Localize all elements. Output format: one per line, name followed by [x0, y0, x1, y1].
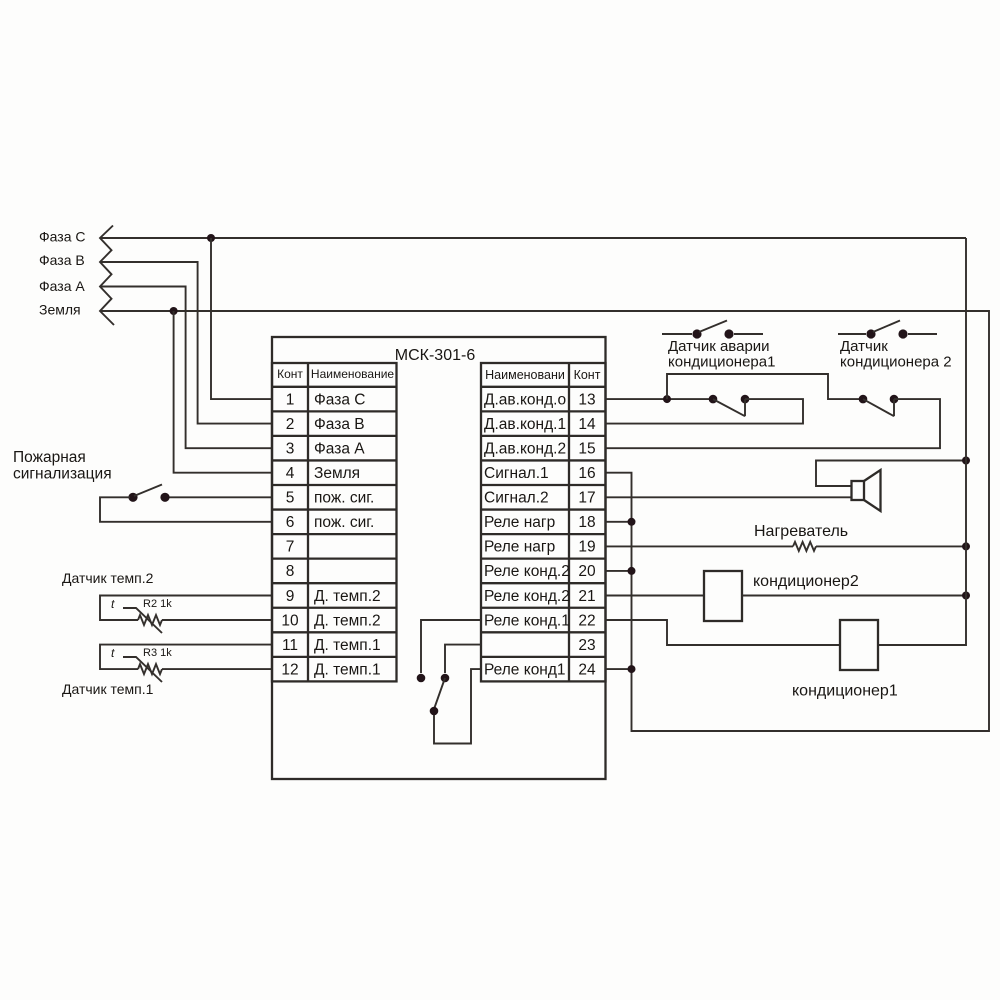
wire fire alarm loop to pin 6 — [100, 497, 272, 522]
wire pin 22 to кондиционер1 — [605, 620, 840, 645]
svg-text:3: 3 — [286, 441, 295, 458]
feeder cable-break zigzag — [100, 226, 114, 326]
heater resistor zigzag — [793, 542, 816, 551]
left terminal table row lines — [272, 387, 397, 657]
right terminal table frame — [481, 363, 606, 681]
svg-text:пож. сиг.: пож. сиг. — [314, 490, 374, 507]
wire pin 18 stub — [605, 521, 632, 523]
svg-text:пож. сиг.: пож. сиг. — [314, 514, 374, 531]
svg-text:5: 5 — [286, 490, 295, 507]
contact K2 (кондиционер 2) — [859, 395, 899, 416]
thermistor R3 zigzag — [138, 664, 162, 674]
wire heater to phase C vertical — [816, 545, 966, 547]
right table pin numbers — [578, 391, 596, 678]
svg-text:Реле конд.1: Реле конд.1 — [484, 612, 570, 629]
svg-text:кондиционер2: кондиционер2 — [753, 573, 859, 590]
svg-text:Реле нагр: Реле нагр — [484, 539, 555, 556]
svg-text:Д.ав.конд.2: Д.ав.конд.2 — [484, 441, 566, 458]
right table signal names — [484, 391, 570, 678]
svg-text:Датчик темп.2: Датчик темп.2 — [62, 570, 154, 586]
svg-text:13: 13 — [578, 391, 595, 408]
switch fire alarm: contact dots — [128, 493, 137, 502]
wire pin 19 to heater — [605, 545, 793, 547]
box кондиционер1 — [840, 620, 878, 670]
svg-text:24: 24 — [578, 661, 596, 678]
svg-text:Фаза А: Фаза А — [39, 278, 85, 294]
svg-text:Реле нагр: Реле нагр — [484, 514, 555, 531]
svg-text:Д. темп.2: Д. темп.2 — [314, 612, 381, 629]
svg-text:Датчик аварии: Датчик аварии — [668, 338, 770, 355]
svg-text:Наименование: Наименование — [311, 367, 395, 381]
svg-text:Д. темп.1: Д. темп.1 — [314, 661, 381, 678]
svg-text:Земля: Земля — [314, 465, 360, 482]
switch icon: датчик аварии кондиционера1 — [662, 321, 763, 339]
svg-text:11: 11 — [282, 637, 298, 654]
box кондиционер2 — [704, 571, 742, 621]
svg-text:Фаза А: Фаза А — [314, 441, 365, 458]
internal contact blade — [434, 678, 446, 711]
svg-text:22: 22 — [578, 612, 595, 629]
node junction ground — [170, 307, 178, 315]
internal changeover contact: pin22 leg — [421, 620, 481, 673]
wire phase A to pin 3 — [101, 287, 272, 449]
wire ground bus (Земля) — [100, 311, 989, 731]
left table signal names — [314, 391, 381, 678]
wire pin 24 stub — [605, 668, 632, 670]
wire riser from pin13 junction to contact K2 — [667, 374, 863, 399]
contact K1 (авария кондиционера1) — [709, 395, 750, 416]
svg-text:2: 2 — [286, 416, 295, 433]
svg-text:Д.ав.конд.о: Д.ав.конд.о — [484, 391, 566, 408]
svg-text:Земля: Земля — [39, 302, 81, 318]
wire contact K1 to pin 14 — [605, 399, 803, 424]
svg-text:Фаза В: Фаза В — [314, 416, 365, 433]
left terminal table divider — [307, 363, 309, 681]
svg-text:Д. темп.2: Д. темп.2 — [314, 588, 381, 605]
svg-text:Фаза С: Фаза С — [314, 391, 365, 408]
left table pin numbers — [281, 391, 299, 678]
svg-text:18: 18 — [578, 514, 595, 531]
svg-text:Фаза С: Фаза С — [39, 229, 85, 245]
svg-text:16: 16 — [578, 465, 595, 482]
svg-text:Датчик: Датчик — [840, 338, 888, 355]
svg-text:t: t — [111, 646, 115, 660]
svg-text:кондиционера1: кондиционера1 — [668, 354, 775, 371]
node junction phase C — [207, 234, 215, 242]
svg-text:Сигнал.2: Сигнал.2 — [484, 490, 549, 507]
speaker BA1 — [852, 470, 881, 511]
wire phase C horizontal — [100, 237, 966, 239]
svg-text:10: 10 — [281, 612, 299, 629]
svg-text:Реле конд1: Реле конд1 — [484, 661, 566, 678]
svg-text:R3 1k: R3 1k — [143, 647, 172, 659]
switch icon: датчик кондиционера 2 — [838, 321, 937, 339]
wire phase C vertical right side down to кондиционер1 — [878, 238, 966, 645]
wire phase C drop to pin 1 — [211, 238, 272, 399]
wire contact K2 to pin 15 — [605, 399, 940, 448]
internal contact fixed dots — [417, 674, 426, 683]
svg-text:Д. темп.1: Д. темп.1 — [314, 637, 381, 654]
svg-text:23: 23 — [578, 637, 595, 654]
wire speaker top lead from phase C vertical — [816, 461, 966, 487]
wire pin 21 to кондиционер2 — [605, 595, 704, 597]
wire phase B to pin 2 — [101, 262, 272, 424]
internal changeover contact: pin23 leg — [445, 645, 481, 673]
controller box МСК-301-6 — [272, 337, 606, 779]
svg-text:7: 7 — [286, 539, 295, 556]
svg-text:t: t — [111, 597, 115, 611]
wire ground drop to pin 4 — [174, 311, 272, 473]
svg-text:кондиционера 2: кондиционера 2 — [840, 354, 952, 371]
svg-text:сигнализация: сигнализация — [13, 466, 112, 483]
svg-text:Реле конд.2: Реле конд.2 — [484, 588, 570, 605]
svg-text:14: 14 — [578, 416, 596, 433]
svg-text:1: 1 — [286, 391, 295, 408]
svg-text:Реле конд.2: Реле конд.2 — [484, 563, 570, 580]
thermistor R2 strike and t — [123, 608, 162, 633]
svg-text:Конт: Конт — [277, 367, 303, 381]
node pin 20 on bus — [628, 567, 636, 575]
svg-text:9: 9 — [286, 588, 295, 605]
svg-text:кондиционер1: кондиционер1 — [792, 683, 898, 700]
svg-text:19: 19 — [578, 539, 595, 556]
svg-text:20: 20 — [578, 563, 596, 580]
svg-text:Фаза В: Фаза В — [39, 252, 85, 268]
thermistor R2 zigzag — [138, 615, 162, 625]
svg-text:МСК-301-6: МСК-301-6 — [395, 347, 476, 364]
svg-text:Датчик темп.1: Датчик темп.1 — [62, 681, 154, 697]
svg-text:17: 17 — [578, 490, 595, 507]
svg-text:R2 1k: R2 1k — [143, 598, 172, 610]
node heater tap — [962, 542, 970, 550]
svg-text:Наименовани: Наименовани — [485, 368, 565, 382]
svg-text:15: 15 — [578, 441, 595, 458]
internal contact common dot — [430, 707, 439, 716]
wire кондиционер2 to phase C vertical — [742, 595, 966, 597]
wire pin 17 to speaker — [605, 496, 852, 498]
thermistor R2 bracket wires pins 9-10 — [100, 596, 272, 621]
node speaker tap on phase C vertical — [962, 457, 970, 465]
svg-text:8: 8 — [286, 563, 295, 580]
right terminal table divider — [568, 363, 570, 681]
wire pin 13 to contacts — [605, 398, 713, 400]
thermistor R3 strike and t — [123, 657, 162, 682]
node кондиционер2 tap — [962, 592, 970, 600]
svg-text:4: 4 — [286, 465, 295, 482]
node junction pin 13 — [663, 395, 671, 403]
thermistor R3 bracket wires pins 11-12 — [100, 645, 272, 670]
node pin 24 on bus — [628, 665, 636, 673]
svg-text:12: 12 — [281, 661, 298, 678]
right terminal table row lines — [481, 387, 606, 657]
wire internal contact common to pin 24 — [434, 669, 481, 743]
svg-text:6: 6 — [286, 514, 295, 531]
switch fire alarm: right lead to pin 5 — [169, 496, 272, 498]
left terminal table frame — [272, 363, 397, 681]
svg-text:Пожарная: Пожарная — [13, 449, 86, 466]
switch fire alarm: blade — [134, 485, 162, 497]
svg-text:21: 21 — [578, 588, 595, 605]
svg-text:Конт: Конт — [574, 368, 601, 382]
svg-text:Нагреватель: Нагреватель — [754, 523, 848, 540]
svg-text:Д.ав.конд.1: Д.ав.конд.1 — [484, 416, 566, 433]
node pin 18 on bus — [628, 518, 636, 526]
svg-text:Сигнал.1: Сигнал.1 — [484, 465, 549, 482]
wire pin 20 stub — [605, 570, 632, 572]
